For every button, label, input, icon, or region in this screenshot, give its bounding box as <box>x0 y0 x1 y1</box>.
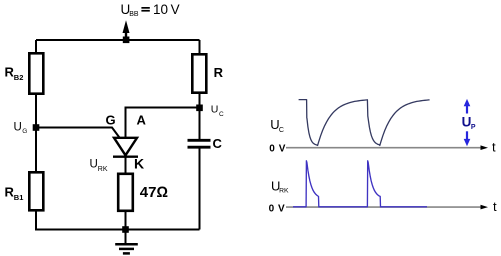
svg-text:C: C <box>219 111 224 118</box>
label UC <box>211 104 224 119</box>
svg-text:10: 10 <box>153 2 168 17</box>
wire: left rail RB2 to RB1 <box>35 94 37 171</box>
axis t (UC graph) <box>286 140 496 155</box>
svg-text:BB: BB <box>129 11 139 18</box>
svg-text:t: t <box>493 199 497 214</box>
wire: top supply rail <box>36 39 200 41</box>
svg-text:B2: B2 <box>14 73 24 82</box>
svg-text:U: U <box>211 104 219 116</box>
wire: RB2 top lead <box>35 40 37 52</box>
label UG <box>14 122 28 135</box>
svg-text:B1: B1 <box>14 193 24 202</box>
wire: anode wire from thyristor to UC node <box>126 108 200 138</box>
resistor RB1 <box>29 172 43 210</box>
node UC junction <box>196 105 203 112</box>
svg-text:t: t <box>492 140 496 155</box>
thyristor V1 <box>113 138 138 157</box>
waveform URK <box>293 161 427 207</box>
label RB2 <box>5 65 24 82</box>
node UG junction <box>33 124 40 131</box>
label RB1 <box>5 185 24 202</box>
svg-text:0: 0 <box>269 203 275 214</box>
svg-text:U: U <box>14 122 22 134</box>
svg-text:C: C <box>279 127 284 134</box>
resistor R <box>192 54 206 92</box>
wire: cathode lead to 47ohm resistor <box>125 157 127 173</box>
svg-text:P: P <box>471 124 476 131</box>
svg-text:V: V <box>279 144 286 155</box>
axis t (URK graph) <box>286 199 497 214</box>
supply arrow UBB <box>123 20 130 43</box>
svg-text:G: G <box>22 128 27 135</box>
svg-text:U: U <box>462 114 472 129</box>
label UP <box>462 114 476 130</box>
wire: 47ohm bottom lead <box>125 211 127 230</box>
waveform UC <box>299 100 430 146</box>
svg-text:G: G <box>106 113 116 128</box>
label UBB = 10 V <box>121 2 180 18</box>
label UC (graph) <box>270 117 284 134</box>
svg-text:RK: RK <box>98 166 108 173</box>
svg-text:R: R <box>214 65 224 80</box>
wire: gate wire UG to thyristor <box>36 128 120 138</box>
label URK <box>90 159 108 174</box>
wire: R top lead <box>199 40 201 53</box>
svg-text:47Ω: 47Ω <box>140 184 168 201</box>
wire: RB1 bottom lead to bottom rail <box>36 210 200 229</box>
node ground junction <box>122 226 129 233</box>
svg-text:U: U <box>90 159 98 171</box>
capacitor C <box>188 108 211 230</box>
label URK (graph) <box>271 178 289 194</box>
arrow UP down <box>464 131 471 146</box>
svg-text:V: V <box>278 203 285 214</box>
ground <box>115 230 138 254</box>
resistor 47ohm <box>118 174 133 211</box>
wire: R bottom lead to node UC <box>199 92 201 108</box>
svg-text:RK: RK <box>279 188 289 195</box>
arrow UP up <box>464 99 471 114</box>
svg-text:A: A <box>137 113 147 128</box>
resistor RB2 <box>29 53 43 93</box>
svg-text:0: 0 <box>269 144 275 155</box>
svg-text:V: V <box>171 2 180 17</box>
svg-text:C: C <box>213 136 223 151</box>
svg-text:K: K <box>134 155 144 171</box>
